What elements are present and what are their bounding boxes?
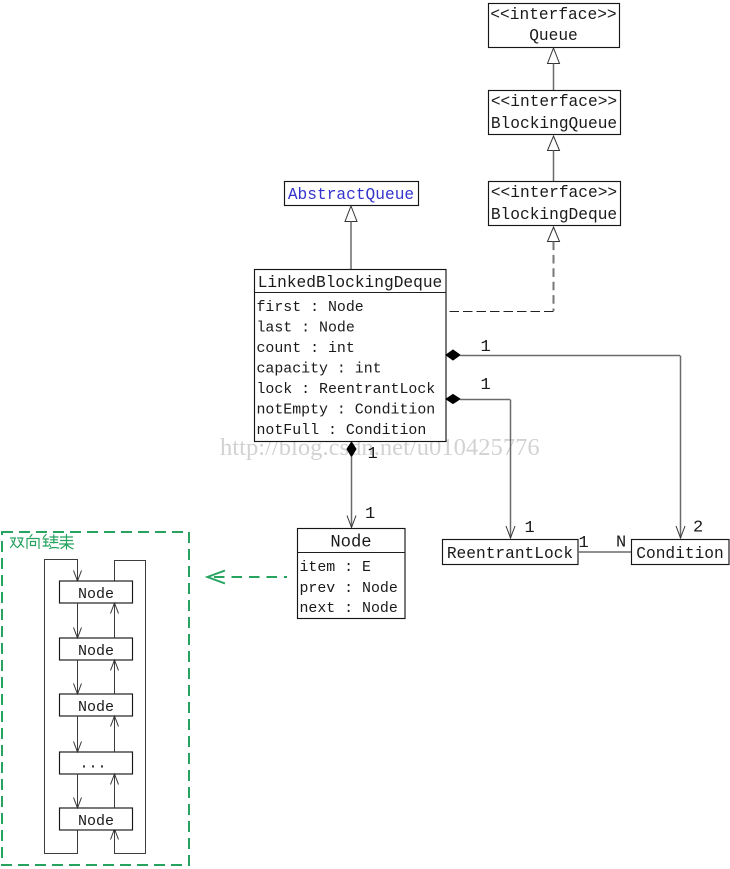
prev wire node3 to node2 [114, 660, 116, 694]
svg-text:Node: Node [330, 534, 371, 553]
svg-text:notFull : Condition: notFull : Condition [257, 423, 427, 439]
wire LinkedBlockingDeque to Node [351, 457, 353, 528]
next wire node4 to node5 [77, 774, 79, 808]
svg-text:<<interface>>: <<interface>> [490, 6, 616, 24]
svg-text:last : Node: last : Node [257, 321, 355, 337]
prev wire node2 to node1 [114, 603, 116, 638]
svg-text:ReentrantLock: ReentrantLock [447, 545, 573, 563]
svg-text:1: 1 [579, 534, 589, 553]
wire LinkedBlockingDeque to AbstractQueue [350, 222, 352, 270]
svg-text:<<interface>>: <<interface>> [491, 184, 617, 202]
svg-text:next : Node: next : Node [300, 601, 398, 617]
association ReentrantLock to Condition [578, 551, 631, 553]
svg-text:Node: Node [78, 643, 114, 660]
wire BlockingQueue to Queue [553, 64, 555, 91]
class box LinkedBlockingDeque [255, 270, 447, 442]
aggregation diamond to Condition [446, 350, 460, 360]
aggregation diamond to ReentrantLock [446, 395, 460, 404]
dashed wire realization vertical [553, 242, 555, 312]
svg-text:notEmpty : Condition: notEmpty : Condition [257, 403, 436, 419]
svg-text:1: 1 [481, 376, 491, 395]
next wire node2 to node3 [77, 660, 79, 694]
wire LinkedBlockingDeque to Condition horizontal [460, 355, 680, 357]
svg-text:1: 1 [368, 445, 378, 464]
wire LinkedBlockingDeque to ReentrantLock horizontal [460, 399, 510, 401]
prev wire node4 to node3 [114, 716, 116, 752]
svg-text:N: N [616, 534, 626, 553]
svg-text:count : int: count : int [257, 341, 355, 357]
svg-text:AbstractQueue: AbstractQueue [288, 186, 414, 204]
arrowhead into last Node bottom [111, 829, 119, 840]
list node box 3 [60, 694, 133, 716]
svg-text:first : Node: first : Node [257, 300, 364, 316]
aggregation diamond to Node [347, 442, 356, 457]
svg-text:<<interface>>: <<interface>> [491, 93, 617, 111]
list node box 4 ellipsis [60, 752, 133, 774]
interface box BlockingDeque [489, 182, 621, 226]
green dashed arrow from Node to note [208, 571, 288, 584]
arrowhead into Condition [676, 526, 685, 538]
svg-text:1: 1 [365, 505, 375, 524]
arrowhead into ReentrantLock [506, 526, 515, 538]
list node box 1 [60, 581, 133, 603]
svg-text:Node: Node [78, 699, 114, 716]
svg-text:lock : ReentrantLock: lock : ReentrantLock [257, 382, 436, 398]
svg-text:Node: Node [78, 813, 114, 830]
svg-text:LinkedBlockingDeque: LinkedBlockingDeque [258, 274, 443, 292]
list node box 5 [60, 808, 133, 830]
svg-text:BlockingDeque: BlockingDeque [491, 206, 617, 224]
class box Node [298, 529, 406, 619]
generalization arrowhead to Queue [548, 48, 560, 64]
next wire node1 to node2 [77, 603, 79, 638]
svg-text:prev : Node: prev : Node [300, 581, 398, 597]
linked list outer left top wire [45, 560, 78, 854]
linked list outer right wire [115, 561, 146, 854]
next wire node3 to node4 [77, 716, 79, 752]
generalization arrowhead to BlockingQueue [548, 136, 560, 151]
prev wire node5 to node4 [114, 774, 116, 808]
generalization arrowhead to AbstractQueue [345, 206, 357, 222]
class box AbstractQueue [285, 182, 419, 206]
svg-text:...: ... [79, 756, 106, 773]
wire LinkedBlockingDeque to ReentrantLock vertical [510, 400, 512, 539]
svg-text:2: 2 [693, 519, 703, 538]
realization arrowhead to BlockingDeque [548, 227, 560, 242]
green dashed note border [2, 532, 189, 865]
svg-text:Node: Node [78, 586, 114, 603]
list node box 2 [60, 638, 133, 660]
interface box Queue [489, 4, 620, 48]
svg-text:capacity : int: capacity : int [257, 362, 382, 378]
wire LinkedBlockingDeque to Condition vertical [680, 356, 682, 539]
svg-text:1: 1 [525, 519, 535, 538]
svg-text:item : E: item : E [300, 560, 372, 576]
arrowhead into first Node top [74, 571, 82, 582]
green label shuangxianglianbiao [11, 535, 74, 550]
wire BlockingDeque to BlockingQueue [553, 151, 555, 182]
svg-text:Condition: Condition [636, 545, 723, 563]
svg-text:Queue: Queue [529, 27, 578, 45]
class box ReentrantLock [443, 540, 579, 565]
class box Condition [632, 540, 730, 565]
interface box BlockingQueue [489, 91, 621, 135]
svg-text:BlockingQueue: BlockingQueue [491, 115, 617, 133]
dashed wire realization horizontal [446, 311, 554, 313]
arrowhead into Node [347, 516, 356, 528]
svg-text:1: 1 [481, 338, 491, 357]
